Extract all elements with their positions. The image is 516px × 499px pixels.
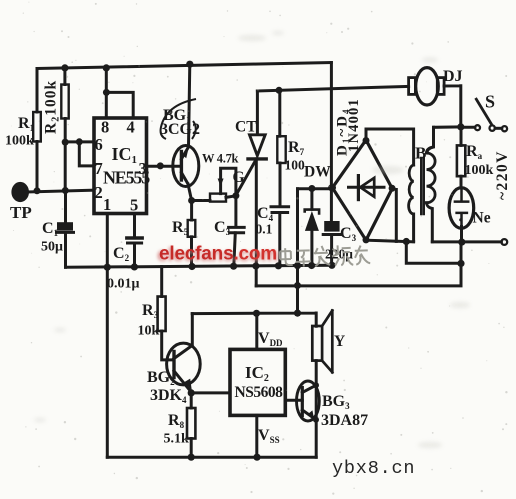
scan smudges xyxy=(34,31,470,448)
wire emitter to IC2 xyxy=(191,391,230,394)
node mains terminal lower xyxy=(501,239,507,245)
wire bridge AC right stub xyxy=(395,190,398,242)
wire rail B xyxy=(256,284,461,287)
svg-text:C1: C1 xyxy=(42,220,59,238)
capacitor C4 xyxy=(271,205,289,208)
wire top supply rail xyxy=(37,63,331,69)
node BG3 leads xyxy=(313,382,319,388)
transistor Q3 (BG3) xyxy=(297,381,320,421)
svg-text:R5: R5 xyxy=(172,219,189,237)
svg-text:~220V: ~220V xyxy=(494,150,511,200)
char shao xyxy=(332,245,354,266)
capacitor C3 electrolytic 220u xyxy=(330,63,333,223)
potentiometer W xyxy=(192,199,210,202)
wire VDD feed lower section xyxy=(192,313,316,326)
wire transformer primary top to switch node xyxy=(434,125,461,128)
wire gate diagonal to CT xyxy=(236,161,255,195)
node TP xyxy=(13,183,28,200)
op-amp U1 (timer IC1 NE555 box) xyxy=(94,118,147,214)
svg-text:100: 100 xyxy=(285,158,306,173)
resistor R1 xyxy=(36,69,39,113)
svg-text:1N4001: 1N4001 xyxy=(346,98,362,152)
svg-text:50μ: 50μ xyxy=(41,240,63,255)
capacitor C2 xyxy=(133,214,136,238)
svg-text:IC2: IC2 xyxy=(245,363,269,384)
resistor R2 xyxy=(63,68,66,85)
svg-text:5: 5 xyxy=(130,196,138,215)
svg-text:NS5608: NS5608 xyxy=(235,384,284,401)
svg-text:S: S xyxy=(485,92,495,112)
svg-text:BG3: BG3 xyxy=(322,393,350,411)
svg-text:3DK4: 3DK4 xyxy=(150,387,187,405)
transistor Q2 (BG2) xyxy=(167,343,201,385)
node pin3 dot xyxy=(157,162,164,169)
char zi xyxy=(296,250,312,267)
char you xyxy=(355,245,371,265)
node bridge vertices xyxy=(363,137,370,144)
svg-text:C3: C3 xyxy=(214,219,231,237)
wire jog to pin7 xyxy=(79,142,94,166)
svg-text:C3: C3 xyxy=(340,225,357,243)
node W right terminal xyxy=(232,192,239,199)
svg-text:DJ: DJ xyxy=(443,68,463,85)
svg-text:3: 3 xyxy=(139,159,147,178)
svg-text:100k: 100k xyxy=(5,134,34,149)
svg-text:Y: Y xyxy=(334,333,345,350)
svg-text:VSS: VSS xyxy=(258,427,280,445)
watermark elecfans xyxy=(157,244,370,268)
char dian xyxy=(280,248,293,265)
node BG2 emitter junction xyxy=(188,389,195,396)
node R7 top xyxy=(276,87,283,94)
svg-text:C2: C2 xyxy=(113,245,130,263)
svg-text:R7: R7 xyxy=(288,139,305,157)
wire rail A (signal ground rail) xyxy=(66,265,333,267)
node TP wire dots xyxy=(34,187,41,194)
svg-text:DW: DW xyxy=(304,164,331,181)
node mains terminal upper xyxy=(502,126,507,131)
svg-text:1: 1 xyxy=(103,195,111,214)
wire pin 3 output xyxy=(147,165,182,168)
svg-text:100k: 100k xyxy=(465,163,494,178)
svg-text:TP: TP xyxy=(10,203,32,222)
wire VDD pin xyxy=(255,313,258,349)
zener diode DW xyxy=(310,188,313,209)
node rail B crossing xyxy=(294,282,301,289)
svg-text:3CG2: 3CG2 xyxy=(160,121,200,138)
node VDD wire dots xyxy=(253,310,260,317)
svg-text:Ra: Ra xyxy=(466,143,483,161)
resistor R7 xyxy=(278,90,281,136)
wire node DC plus (y=188) xyxy=(298,187,332,190)
capacitor C1 xyxy=(64,191,67,224)
node top rail dots xyxy=(61,64,68,71)
svg-text:G: G xyxy=(233,169,245,186)
transistor Q1 (BG1) xyxy=(173,146,199,187)
node bridge bottom junction xyxy=(403,238,410,245)
wire pin6 from R2 node xyxy=(65,140,94,143)
node bottom rail dots xyxy=(188,454,195,461)
node rail A dots xyxy=(104,264,111,271)
node DJ switch junction xyxy=(457,123,464,130)
wire step rail A to rail B xyxy=(255,266,258,286)
resistor R5 xyxy=(190,201,193,221)
svg-text:2: 2 xyxy=(95,183,103,202)
capacitor C3 small xyxy=(234,196,237,227)
wire DJ feed (CT anode rail) xyxy=(257,86,408,91)
switch S xyxy=(461,126,475,129)
wire vertical feed x=297 xyxy=(296,189,299,314)
transformer B xyxy=(409,165,414,214)
svg-text:0.01μ: 0.01μ xyxy=(107,277,140,292)
svg-text:Ne: Ne xyxy=(473,210,491,227)
wire pins 8 and 4 to top rail xyxy=(106,68,133,118)
wire bridge negative bottom xyxy=(366,240,414,242)
wire TP to pin2 xyxy=(27,190,94,192)
char fa xyxy=(314,246,331,267)
svg-text:B: B xyxy=(415,144,426,163)
wire primary bottom to mains terminal xyxy=(432,240,501,243)
wire pin1 down through rail A to bottom rail xyxy=(106,214,109,458)
lamp Ne xyxy=(449,188,474,229)
resistor Ra xyxy=(460,129,463,145)
svg-text:IC1: IC1 xyxy=(112,144,138,166)
resistor R3 xyxy=(160,267,163,297)
svg-text:R2100k: R2100k xyxy=(43,80,62,134)
svg-text:R8: R8 xyxy=(168,412,185,430)
IC U2 (IC2 NS5608 box) xyxy=(230,349,285,415)
resistor R8 xyxy=(190,393,193,408)
speaker Y xyxy=(312,326,322,361)
label BG1 paren arc xyxy=(161,99,196,139)
svg-text:W 4.7k: W 4.7k xyxy=(202,152,239,166)
svg-text:3DA87: 3DA87 xyxy=(321,412,368,429)
node R2 lower junctions xyxy=(62,139,69,146)
svg-text:7: 7 xyxy=(95,159,103,178)
node BG1 collector junction xyxy=(188,197,195,204)
svg-text:ybx8.cn: ybx8.cn xyxy=(332,458,415,479)
svg-text:8: 8 xyxy=(101,118,109,137)
thyristor CT xyxy=(256,91,259,134)
svg-text:10k: 10k xyxy=(138,324,160,339)
wire bottom rail xyxy=(107,456,316,459)
motor DJ xyxy=(416,68,439,105)
svg-text:4: 4 xyxy=(127,118,135,137)
svg-text:0.1: 0.1 xyxy=(256,222,273,237)
svg-text:CT: CT xyxy=(235,119,257,136)
node DC plus dots xyxy=(308,185,315,192)
svg-text:6: 6 xyxy=(95,135,103,154)
bridge rectifier D1-D4 xyxy=(332,140,392,240)
svg-text:BG2: BG2 xyxy=(147,369,175,387)
svg-text:elecfans.com: elecfans.com xyxy=(159,244,277,265)
node mains wire dots xyxy=(458,239,465,246)
wire VSS pin xyxy=(255,415,258,457)
svg-text:VDD: VDD xyxy=(258,330,283,348)
svg-text:R3: R3 xyxy=(142,302,159,320)
wire output to BG3 xyxy=(285,399,302,402)
